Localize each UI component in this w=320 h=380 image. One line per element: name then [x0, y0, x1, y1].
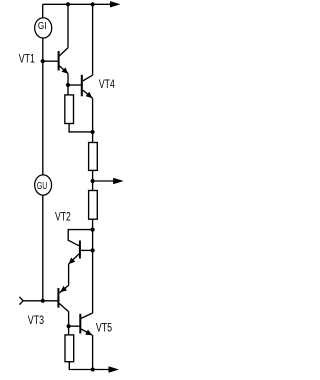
svg-text:VT3: VT3	[28, 313, 45, 327]
svg-text:GU: GU	[37, 181, 47, 192]
svg-text:VT2: VT2	[55, 210, 71, 224]
svg-text:GI: GI	[38, 21, 47, 32]
svg-text:VT4: VT4	[99, 77, 115, 91]
svg-text:VT1: VT1	[19, 52, 36, 66]
svg-text:VT5: VT5	[96, 321, 112, 335]
